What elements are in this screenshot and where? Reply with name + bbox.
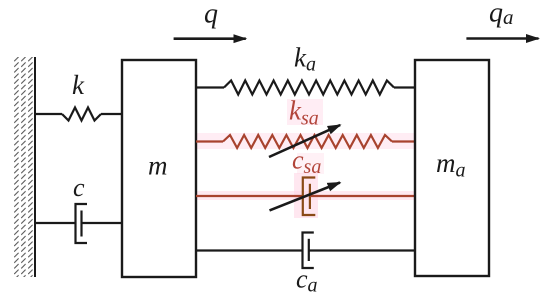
wire: spring k_a to mass m_a — [394, 86, 415, 88]
wire: mass m to damper c_sa (red) — [196, 195, 303, 197]
damper c_a piston — [308, 239, 310, 261]
wire: damper c to mass m — [82, 222, 123, 224]
svg-text:ka: ka — [294, 43, 316, 76]
svg-text:c: c — [73, 173, 85, 202]
damper c_sa piston (red) — [309, 184, 311, 209]
spring k — [62, 108, 101, 121]
damper c_a cylinder — [303, 233, 314, 269]
pink highlight box around label k_sa — [287, 99, 323, 125]
svg-text:qa: qa — [489, 0, 514, 29]
pink highlight box around damper c_sa — [294, 173, 318, 218]
svg-text:q: q — [204, 0, 218, 30]
wire: spring k_sa to mass m_a (red) — [392, 140, 415, 142]
wire: wall to spring k — [35, 113, 62, 115]
damper c_sa cylinder (red) — [303, 178, 316, 216]
displacement arrow q_a — [466, 37, 538, 40]
variable arrow through spring k_sa — [269, 125, 340, 157]
svg-text:m: m — [148, 151, 168, 181]
wire: wall to damper c — [35, 222, 76, 224]
damper c cylinder — [76, 204, 88, 243]
mass m_a — [415, 60, 489, 276]
mass m — [122, 60, 196, 277]
pink highlight band behind red spring k_sa — [196, 133, 415, 149]
variable arrow through damper c_sa — [270, 183, 341, 211]
wire: mass m to damper c_a — [196, 249, 303, 251]
wire: damper c_sa to mass m_a (red) — [310, 195, 415, 197]
wire: spring k to mass m — [101, 113, 122, 115]
displacement arrow q — [174, 37, 246, 40]
wire: mass m to spring k_a — [196, 86, 224, 88]
svg-text:k: k — [72, 70, 85, 100]
wall face line — [34, 57, 36, 277]
spring k_sa (red, variable) — [223, 135, 392, 148]
svg-text:ca: ca — [296, 265, 318, 297]
spring k_a — [224, 81, 394, 95]
svg-text:csa: csa — [292, 146, 321, 179]
wall (fixed support, hatched) — [14, 57, 35, 277]
pink highlight box around label c_sa — [297, 153, 324, 174]
pink highlight band behind red damper wire c_sa — [196, 191, 415, 200]
wire: mass m to spring k_sa (red) — [196, 140, 223, 142]
damper c piston — [80, 211, 82, 237]
wire: damper c_a to mass m_a — [309, 249, 415, 251]
